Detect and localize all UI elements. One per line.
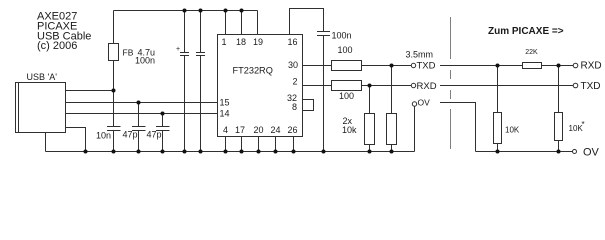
ferrite bead FB [109,11,134,91]
pin number labels top [221,37,297,47]
svg-text:+: + [176,46,180,53]
svg-text:10K: 10K [505,126,520,135]
svg-text:100n: 100n [135,56,155,66]
junction dots top bus [183,9,244,13]
pin 17 stub [241,137,243,152]
wire USBDP from USB to pin 14 [66,113,218,115]
svg-text:USB 'A': USB 'A' [27,72,58,82]
svg-text:8: 8 [292,102,297,112]
pin 16 loop to 100n [290,9,324,35]
svg-text:FT232RQ: FT232RQ [233,66,273,76]
resistor 10k (pulldown on TXD line) [387,66,397,152]
node RXD jack ring [411,81,436,92]
svg-text:*: * [582,120,585,129]
svg-text:18: 18 [236,37,246,47]
svg-text:TXD: TXD [417,61,436,72]
wire USBDM from USB to pin 15 [66,102,218,104]
pins 32/8 shorting bracket [303,100,314,111]
node TXD jack tip [411,61,435,72]
wire USB ground pin to ground bus [66,128,86,152]
svg-text:2: 2 [292,77,297,87]
svg-text:20: 20 [253,125,263,135]
svg-text:26: 26 [287,125,297,135]
op-amp U1 FT232RQ chip body [218,35,303,137]
svg-text:3.5mm: 3.5mm [406,50,434,60]
svg-text:RXD: RXD [581,61,602,72]
junction dot VBUS/FB [112,89,116,93]
pin number labels bottom [223,125,298,135]
resistor 100 (RXD series) [332,81,362,102]
wire OV link to lower rail [440,103,476,152]
svg-text:FB: FB [123,48,134,58]
svg-text:19: 19 [253,37,263,47]
svg-text:14: 14 [220,109,230,119]
wire top supply bus [114,10,258,12]
wire VBUS from USB to ferrite bead node [66,90,114,92]
svg-text:RXD: RXD [417,81,437,92]
svg-text:(c) 2006: (c) 2006 [37,40,77,52]
USB 'A' connector J1 [16,72,66,133]
capacitor 10n [96,91,121,152]
svg-text:100n: 100n [332,31,352,41]
pin 26 stub [293,137,295,152]
svg-text:17: 17 [235,125,245,135]
pin 19 stub [257,11,259,35]
ground bus [46,151,415,153]
svg-text:100: 100 [339,91,354,101]
wire resistor to TXD jack [362,65,412,67]
svg-text:47p: 47p [147,130,162,140]
wire RXD line (right) right part [542,65,574,67]
capacitor 4.7u electrolytic [137,11,189,152]
svg-text:OV: OV [418,98,431,108]
svg-text:10k: 10k [342,125,357,135]
junction dot USBDM/47p [137,101,141,105]
wire pin 30 to resistor [303,65,332,67]
svg-text:16: 16 [287,37,297,47]
svg-text:22K: 22K [525,49,538,56]
title text block [37,11,91,53]
junction dot RXD row [368,84,372,88]
junction dot USBDP/47p [161,112,165,116]
wire OV rail (right) [476,151,573,153]
svg-text:1: 1 [221,37,226,47]
pin 24 stub [275,137,277,152]
node OV output [573,147,600,159]
resistor 10K (pullup to RXD) [494,66,520,152]
junction dot TXD row [390,64,394,68]
capacitor 100n (right) [317,31,352,152]
label 2x 10k [342,116,357,135]
junction dots right OV rail [496,150,561,154]
pin number labels left [220,98,230,119]
junction dots right RXD row [496,64,561,68]
pin 4 stub [225,137,227,152]
wire resistor to RXD jack [362,85,412,87]
svg-text:OV: OV [583,147,600,159]
resistor 100 (TXD series) [332,45,362,71]
pin number labels right [287,60,298,112]
svg-text:100: 100 [338,45,353,55]
resistor 10k (pulldown on RXD line) [365,86,375,152]
capacitor 100n (left) [135,11,205,152]
capacitor 47p (second) [147,114,170,152]
svg-text:15: 15 [220,98,230,108]
node RXD output [573,61,601,72]
pin 18 stub [241,11,243,35]
wire TXD line (right) [440,85,573,87]
svg-text:47p: 47p [123,130,138,140]
svg-text:Zum PICAXE =>: Zum PICAXE => [488,26,564,37]
svg-text:24: 24 [270,125,280,135]
node OV jack sleeve [412,98,430,152]
pin 20 stub [258,137,260,152]
node TXD output [573,81,600,92]
svg-text:30: 30 [288,60,298,70]
svg-text:10n: 10n [96,131,111,141]
jack boundary dashed line [450,17,452,149]
pin 1 stub [225,11,227,35]
wire RXD line (right) left part [440,65,523,67]
capacitor 47p (first) [123,103,146,152]
wire USB shell to ground bus [45,133,47,152]
svg-text:4: 4 [223,125,228,135]
wire pin 2 to resistor [303,85,332,87]
resistor 10K* (pulldown) [555,66,585,152]
svg-text:TXD: TXD [581,81,601,92]
junction dots ground bus [84,150,394,154]
resistor 22K [523,49,542,69]
